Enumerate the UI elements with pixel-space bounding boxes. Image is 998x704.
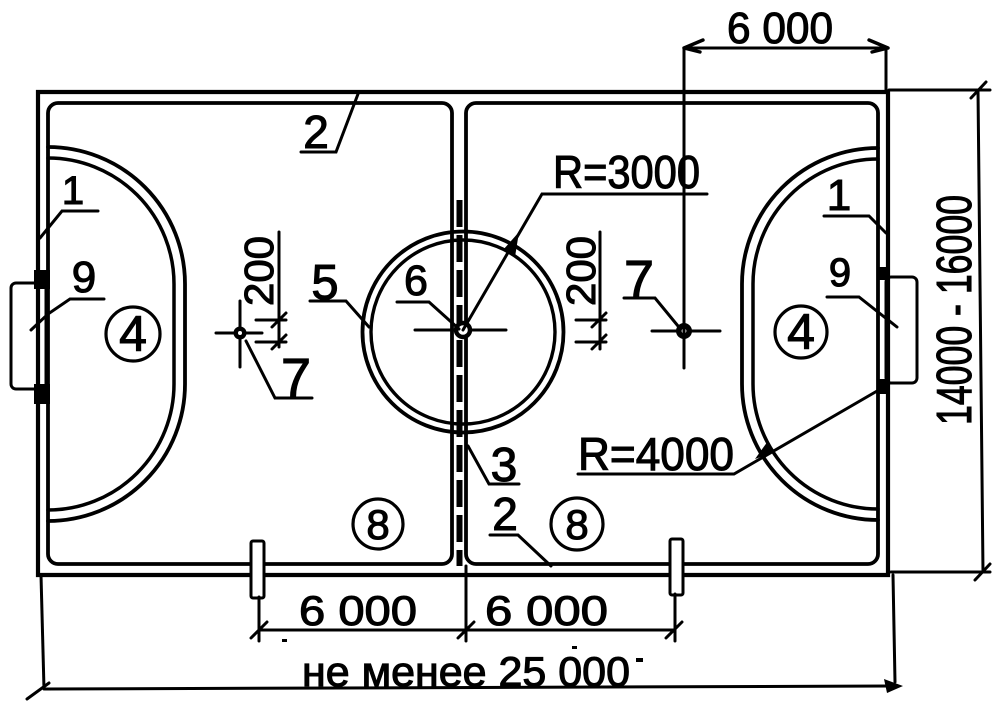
R=4000 leader from goal post through arc (578, 387, 884, 474)
200 dimension right: lower tick slash (592, 335, 606, 349)
200 dimension left: upper tick slash (272, 313, 286, 327)
svg-text:6 000: 6 000 (299, 587, 417, 634)
right half inner boundary (playing line) (466, 103, 878, 564)
svg-text:R=4000: R=4000 (578, 428, 734, 480)
left penalty area inner arc (48, 158, 174, 510)
right goal box (item 9) (886, 277, 917, 383)
svg-text:не менее 25 000: не менее 25 000 (302, 648, 630, 695)
label 2 bottom: underline and leader (490, 535, 551, 566)
label 7 left: leader and underline (246, 341, 312, 398)
label 3: underline and leader (468, 446, 519, 484)
left goal post bottom (filled) (34, 384, 50, 404)
svg-text:8: 8 (565, 501, 588, 548)
centre circle inner (371, 240, 555, 424)
top dimension 6000: right extension stub (885, 48, 888, 92)
right dimension 14000-16000: top extension line (889, 89, 990, 92)
svg-text:8: 8 (366, 501, 389, 548)
circled position 4 left (106, 307, 160, 361)
label 7 right: underline and leader (624, 298, 678, 326)
top dimension 6000: left arrow (684, 40, 703, 52)
label 1 left: underline and leader (40, 211, 98, 238)
svg-text:5: 5 (311, 256, 338, 310)
bottom dimensions: slash tick centre (458, 622, 474, 638)
svg-text:1: 1 (827, 171, 851, 220)
R=3000 leader from centre through circle (463, 194, 707, 330)
200 dimension right: upper tick slash (592, 313, 606, 327)
speck after 25 000 (636, 658, 643, 662)
svg-text:9: 9 (829, 251, 851, 295)
label 2 top: underline and leader (301, 94, 358, 152)
circled position 4 right (775, 306, 827, 358)
svg-text:4: 4 (787, 304, 815, 360)
svg-text:R=3000: R=3000 (553, 146, 700, 198)
left goal box (item 9) (11, 283, 46, 389)
left half inner boundary (playing line) (48, 103, 452, 564)
overall dimension: right arrow head (884, 679, 903, 693)
svg-text:6 000: 6 000 (485, 587, 608, 634)
left penalty mark cross horizontal (item 7 left) (216, 332, 262, 335)
svg-text:14000 - 16000: 14000 - 16000 (928, 195, 982, 425)
right goal post bottom (filled) (878, 379, 890, 394)
svg-text:2: 2 (303, 106, 329, 158)
speck above 25 (572, 646, 577, 649)
right penalty area outer arc (742, 148, 878, 520)
circled position 8 right (551, 498, 603, 550)
right dimension: top slash tick (971, 82, 986, 98)
left penalty area outer arc (48, 147, 185, 521)
svg-text:200: 200 (558, 236, 604, 306)
left penalty mark dot (234, 327, 247, 340)
overall dimension: left slash tick (27, 683, 49, 699)
svg-text:4: 4 (119, 306, 147, 362)
label 9 left: underline and leader (31, 299, 104, 330)
label 9 right: underline and leader (827, 297, 897, 327)
svg-text:6 000: 6 000 (727, 4, 833, 53)
substitution tab marker left on bottom border (251, 541, 264, 598)
200 dimension right: upper tick bar (576, 319, 606, 322)
bottom dimensions 6000+6000: left connector (258, 597, 261, 641)
bottom dimensions: slash tick right (666, 622, 682, 638)
R=4000 arrow head on arc (755, 441, 775, 459)
court outer boundary rectangle (38, 92, 888, 575)
centre circle outer (item 5) (363, 232, 564, 433)
R=3000 arrow head on circle (503, 232, 519, 257)
bottom dimensions: centre connector (465, 566, 468, 641)
top dimension 6000: right arrow (869, 40, 888, 52)
label 5: underline and leader (310, 301, 369, 327)
label 6: underline and leader (397, 302, 459, 329)
200 dimension left: upper tick bar (256, 319, 286, 322)
right dimension: bottom slash tick (975, 564, 990, 580)
bottom dimensions: slash tick left (251, 622, 267, 638)
svg-text:200: 200 (236, 236, 282, 306)
svg-text:1: 1 (62, 169, 84, 213)
speck left of 6 000 (282, 639, 287, 642)
centre mark ring (456, 323, 470, 337)
bottom dimensions: right connector (674, 594, 677, 641)
200 dimension left: lower tick slash (272, 335, 286, 349)
top dimension 6000: extension line down to right penalty mark (683, 48, 686, 368)
substitution tab marker right on bottom border (670, 539, 683, 595)
overall dimension: right extension below court (893, 575, 895, 682)
left penalty mark cross vertical (239, 301, 242, 367)
200 dimension right: vertical line (599, 232, 602, 349)
centre mark cross horizontal (item 6) (415, 329, 506, 332)
label 1 right: underline and leader (824, 216, 886, 233)
centre axis dash-dot line (item 3) (457, 200, 463, 566)
circled position 8 left (353, 499, 403, 549)
svg-text:3: 3 (491, 439, 518, 492)
right dimension 14000-16000: dimension line (978, 90, 983, 572)
bottom dimensions: dimension line (259, 629, 674, 632)
right penalty mark dot (676, 323, 692, 339)
left goal post top (filled) (34, 270, 50, 289)
right goal post top (filled) (878, 267, 890, 280)
right dimension 14000-16000: bottom extension line (891, 571, 990, 574)
svg-text:2: 2 (492, 488, 518, 540)
svg-text:7: 7 (281, 348, 311, 408)
overall dimension: dimension line (45, 686, 898, 689)
svg-text:7: 7 (624, 250, 654, 310)
200 dimension right: lower tick bar (576, 341, 606, 344)
right penalty area inner arc (753, 159, 878, 509)
overall dimension not less than 25000: left extension below court (41, 575, 44, 689)
200 dimension left: vertical line (278, 232, 281, 347)
svg-text:6: 6 (404, 257, 428, 305)
right penalty mark cross (item 7 right) (652, 330, 720, 333)
top dimension 6000: dimension line (684, 47, 888, 50)
200 dimension left: lower tick bar (256, 341, 286, 344)
svg-text:9: 9 (72, 253, 96, 302)
